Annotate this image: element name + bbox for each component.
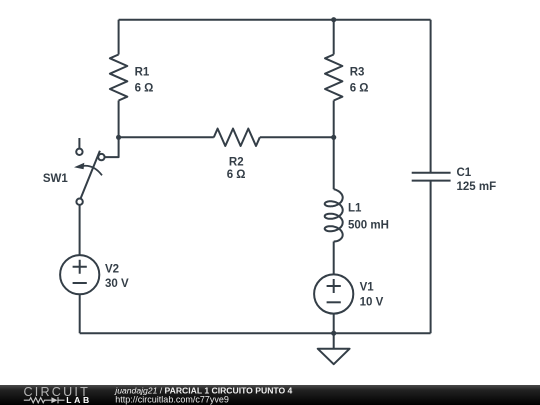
- svg-text:6 Ω: 6 Ω: [227, 169, 246, 181]
- switch SW1 actuation arc: [80, 166, 103, 176]
- voltage source V2 circle: [60, 255, 99, 294]
- V2 minus sign: [73, 282, 87, 284]
- wire node A to R2: [119, 136, 214, 138]
- switch SW1 blade: [81, 151, 100, 199]
- svg-text:R2: R2: [229, 157, 244, 169]
- svg-text:125 mF: 125 mF: [457, 181, 497, 193]
- wire node B to L1: [333, 137, 335, 189]
- switch SW1 pole terminal: [76, 199, 82, 205]
- voltage source V1 circle: [314, 274, 353, 313]
- wire V1 to bottom node: [333, 314, 335, 334]
- wire SW1 pole to V2: [79, 205, 81, 255]
- wire top node to R3: [333, 20, 335, 55]
- node C ground junction: [331, 331, 336, 336]
- svg-text:500 mH: 500 mH: [348, 220, 389, 232]
- resistor R1: [110, 55, 127, 101]
- V2 plus sign: [73, 260, 87, 274]
- svg-text:6 Ω: 6 Ω: [350, 83, 369, 95]
- capacitor C1 plates: [412, 173, 451, 181]
- wire L1 to V1: [333, 242, 335, 275]
- ground symbol: [318, 333, 350, 364]
- svg-text:SW1: SW1: [43, 173, 69, 185]
- node A junction: [116, 135, 121, 140]
- svg-text:http://circuitlab.com/c77yve9: http://circuitlab.com/c77yve9: [115, 395, 229, 405]
- svg-text:R1: R1: [135, 66, 150, 78]
- inductor L1 coil: [325, 189, 343, 241]
- logo wire-resistor-diode: [24, 397, 65, 403]
- wire top rail: [119, 19, 431, 21]
- wire right column upper: [430, 20, 432, 173]
- svg-text:30 V: 30 V: [105, 278, 129, 290]
- switch SW1 open terminal: [76, 149, 82, 155]
- svg-text:10 V: 10 V: [360, 297, 384, 309]
- wire R2 to node B: [260, 136, 334, 138]
- wire right column lower: [430, 181, 432, 334]
- svg-text:C1: C1: [457, 167, 472, 179]
- switch SW1 arrow head: [74, 163, 84, 170]
- V1 plus sign: [327, 279, 341, 293]
- svg-text:L1: L1: [348, 203, 362, 215]
- node top junction: [331, 17, 336, 22]
- V1 minus sign: [327, 301, 341, 303]
- switch SW1 throw terminal: [98, 154, 104, 160]
- svg-text:LAB: LAB: [66, 395, 91, 405]
- wire R1 bottom to node A: [118, 101, 120, 138]
- svg-text:V1: V1: [360, 282, 375, 294]
- resistor R3: [325, 55, 342, 101]
- svg-text:R3: R3: [350, 66, 365, 78]
- resistor R2: [214, 129, 260, 146]
- switch SW1 open terminal stub: [78, 138, 80, 149]
- node B junction: [331, 135, 336, 140]
- svg-text:V2: V2: [105, 264, 119, 276]
- wire R3 bottom to node B: [333, 101, 335, 138]
- svg-text:6 Ω: 6 Ω: [135, 83, 154, 95]
- wire node A to SW1 throw: [105, 137, 119, 157]
- wire V2 to bottom rail: [79, 294, 81, 333]
- wire left top stub: [118, 20, 120, 55]
- wire bottom rail: [80, 332, 431, 334]
